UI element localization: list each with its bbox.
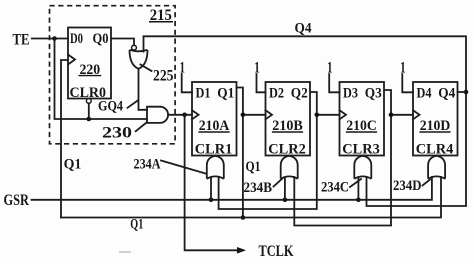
node GSR to 234A <box>209 198 214 203</box>
wire Q4 output <box>458 91 467 93</box>
node Q2 clock branch <box>315 113 320 118</box>
wire Q3 chain and feed to 234B <box>294 90 391 226</box>
flip-flop 210D <box>413 82 458 158</box>
and-gate 230 <box>147 107 168 123</box>
svg-text:234A: 234A <box>134 157 161 173</box>
svg-text:D0: D0 <box>70 31 83 47</box>
node CLR0 tap <box>87 117 92 122</box>
svg-text:Q4: Q4 <box>438 86 455 102</box>
callout 225 <box>141 65 152 72</box>
svg-text:D1: D1 <box>196 86 211 102</box>
flip-flop 210B <box>266 82 311 158</box>
svg-text:D3: D3 <box>343 86 358 102</box>
node GSR to 234C <box>356 198 361 203</box>
CLR0 bubble <box>86 99 91 104</box>
wire Q1 chain <box>237 88 243 218</box>
svg-text:234C: 234C <box>321 180 349 196</box>
flip-flop 210C <box>340 82 385 158</box>
svg-text:Q3: Q3 <box>365 86 382 102</box>
node Q4 branch <box>464 90 469 95</box>
dashed enclosure 215 <box>50 6 176 144</box>
node TE junction <box>52 36 57 41</box>
wire GQ4: 225 output to AND input <box>139 69 148 110</box>
bubble on 225 input <box>132 45 137 50</box>
wire Q4 top line <box>144 36 467 206</box>
node Q1 bottom junction <box>241 215 246 220</box>
constant 1 for 210D <box>400 60 413 93</box>
or-gate 234B <box>281 156 298 200</box>
svg-text:TCLK: TCLK <box>259 243 294 260</box>
wire TCLK <box>185 115 237 251</box>
wire Q1 bottom line <box>61 177 441 218</box>
svg-text:GSR: GSR <box>4 192 30 209</box>
wire GSR <box>32 177 432 200</box>
svg-text:234B: 234B <box>244 180 273 196</box>
svg-text:225: 225 <box>153 67 174 84</box>
svg-text:GQ4: GQ4 <box>98 99 123 115</box>
node Q3 clock branch <box>389 113 394 118</box>
wire TE input <box>32 38 68 40</box>
svg-text:Q2: Q2 <box>291 86 308 102</box>
callout 234A <box>161 161 206 174</box>
callout 234D <box>423 180 431 186</box>
svg-text:Q1: Q1 <box>130 217 143 233</box>
svg-text:230: 230 <box>102 125 132 142</box>
wire Q0 to gate 225 <box>111 39 134 46</box>
svg-text:234D: 234D <box>393 178 422 194</box>
callout 234B <box>274 179 283 187</box>
svg-text:CLR1: CLR1 <box>195 142 233 158</box>
svg-text:D4: D4 <box>417 86 432 102</box>
node Q1 clock branch <box>241 113 246 118</box>
callout GQ4 <box>128 100 139 108</box>
svg-text:D2: D2 <box>269 86 284 102</box>
or-gate 234C <box>354 156 371 200</box>
wire TE branch to AND lower input <box>55 39 148 120</box>
wire Q2 chain and feed to 234A <box>219 92 317 209</box>
gate 225 (XNOR) <box>130 50 148 69</box>
flip-flop 220 <box>68 28 111 104</box>
wire Q1 feedback to clock of 220 <box>61 60 68 218</box>
label 215 <box>149 7 173 24</box>
svg-text:TE: TE <box>13 31 30 48</box>
svg-text:CLR3: CLR3 <box>342 142 380 158</box>
callout 230 <box>136 122 147 131</box>
svg-text:CLR4: CLR4 <box>416 142 454 158</box>
svg-text:Q1: Q1 <box>246 159 261 175</box>
wire AND output to clock of 210A <box>168 114 192 116</box>
constant 1 for 210A <box>180 60 193 93</box>
flip-flop 210A <box>192 82 237 158</box>
arrowhead TCLK <box>237 247 246 254</box>
svg-text:Q1: Q1 <box>217 86 234 102</box>
constant 1 for 210B <box>254 60 265 93</box>
node GSR to 234B <box>283 198 288 203</box>
wire CLR0 stub <box>88 103 90 119</box>
svg-text:CLR2: CLR2 <box>268 142 306 158</box>
svg-text:Q0: Q0 <box>93 31 109 47</box>
node TCLK tap <box>182 113 187 118</box>
svg-text:Q1: Q1 <box>64 157 82 173</box>
or-gate 234A <box>207 156 224 200</box>
svg-text:Q4: Q4 <box>295 21 312 37</box>
or-gate 234D <box>428 156 445 179</box>
callout 234C <box>350 179 361 187</box>
constant 1 for 210C <box>327 60 340 93</box>
stray scan mark <box>119 251 131 253</box>
